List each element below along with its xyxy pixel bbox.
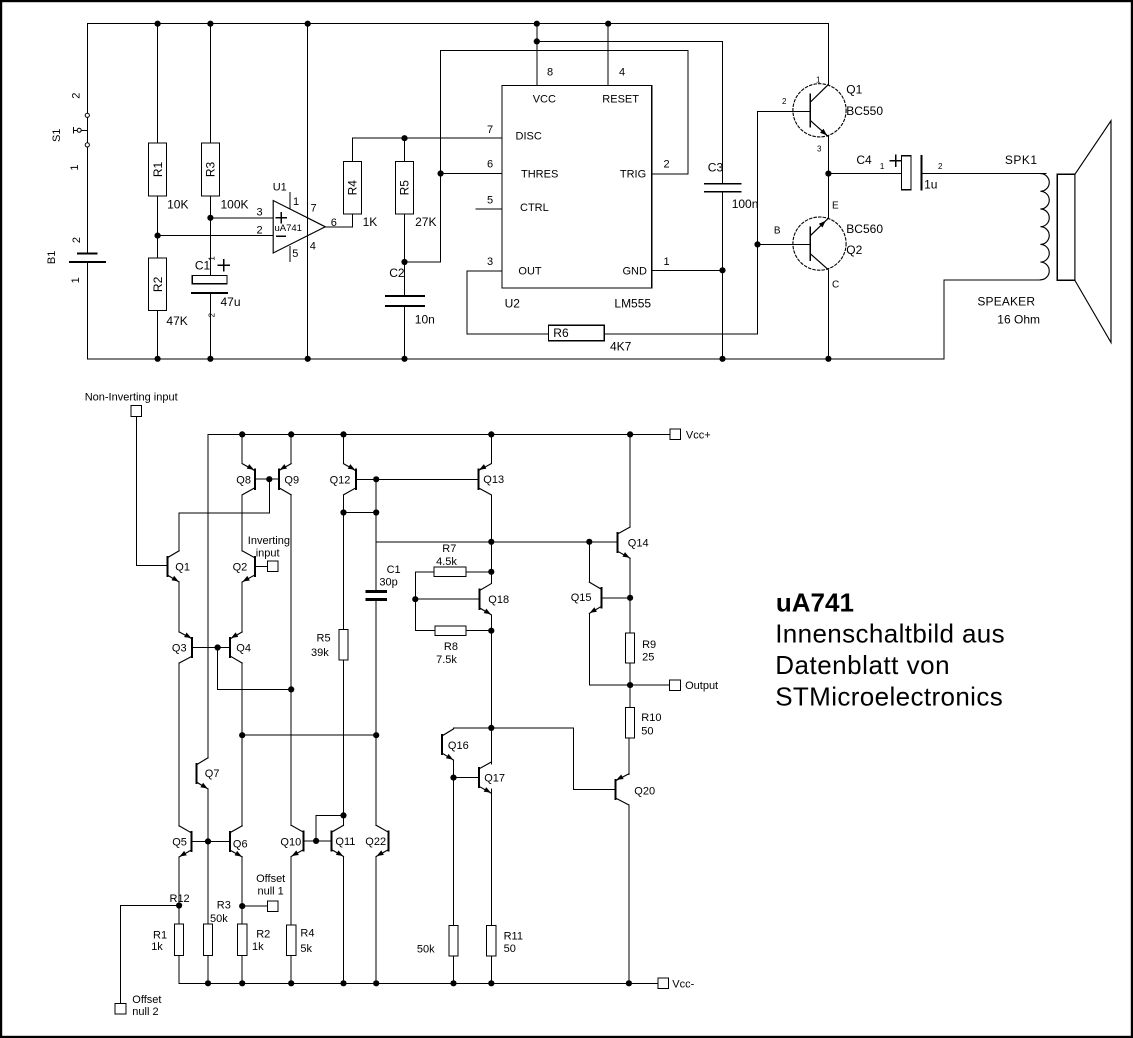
svg-text:E: E — [832, 201, 839, 212]
svg-text:Non-Inverting input: Non-Inverting input — [85, 392, 178, 404]
svg-text:Q12: Q12 — [330, 474, 351, 486]
svg-text:B1: B1 — [46, 251, 58, 264]
svg-text:Q2: Q2 — [846, 243, 862, 257]
svg-text:25: 25 — [642, 652, 654, 664]
svg-text:47u: 47u — [221, 295, 241, 309]
svg-text:Q4: Q4 — [236, 643, 251, 655]
svg-text:50: 50 — [641, 725, 653, 737]
svg-text:null 2: null 2 — [132, 1006, 158, 1018]
svg-text:R4: R4 — [346, 180, 360, 196]
svg-text:C2: C2 — [389, 266, 405, 280]
svg-text:R8: R8 — [444, 641, 458, 653]
svg-text:Q1: Q1 — [846, 82, 862, 96]
svg-text:30p: 30p — [379, 577, 397, 589]
svg-text:Q3: Q3 — [172, 643, 187, 655]
svg-text:Q2: Q2 — [233, 562, 248, 574]
svg-text:1k: 1k — [151, 941, 163, 953]
svg-text:2: 2 — [71, 237, 83, 243]
svg-text:10n: 10n — [415, 313, 435, 327]
svg-text:input: input — [256, 547, 280, 559]
svg-text:2: 2 — [71, 93, 83, 99]
svg-text:2: 2 — [208, 312, 217, 317]
svg-text:27K: 27K — [415, 215, 436, 229]
svg-text:THRES: THRES — [521, 169, 558, 181]
svg-text:C: C — [832, 280, 839, 291]
svg-text:R1: R1 — [153, 929, 167, 941]
svg-text:R11: R11 — [504, 931, 523, 943]
svg-text:BC550: BC550 — [846, 104, 883, 118]
svg-text:Q14: Q14 — [628, 538, 649, 550]
svg-text:7: 7 — [487, 124, 493, 136]
svg-text:CTRL: CTRL — [520, 202, 549, 214]
svg-text:2: 2 — [782, 97, 787, 106]
svg-text:1k: 1k — [252, 941, 264, 953]
svg-text:100n: 100n — [732, 197, 759, 211]
svg-text:RESET: RESET — [602, 94, 639, 106]
svg-text:47K: 47K — [166, 314, 187, 328]
svg-text:Q5: Q5 — [172, 836, 187, 848]
svg-text:Vcc+: Vcc+ — [686, 430, 711, 442]
svg-text:C1: C1 — [387, 564, 401, 576]
svg-text:SPK1: SPK1 — [1005, 153, 1038, 167]
svg-text:1: 1 — [208, 256, 217, 261]
svg-text:1: 1 — [293, 196, 299, 208]
svg-text:7: 7 — [311, 203, 317, 215]
svg-text:100K: 100K — [221, 198, 249, 212]
svg-text:R6: R6 — [553, 326, 569, 340]
svg-text:Q7: Q7 — [205, 768, 220, 780]
svg-text:TRIG: TRIG — [620, 169, 646, 181]
svg-text:R1: R1 — [151, 162, 165, 178]
svg-text:R9: R9 — [642, 639, 656, 651]
svg-text:Inverting: Inverting — [248, 535, 290, 547]
svg-text:VCC: VCC — [533, 94, 556, 106]
svg-text:16 Ohm: 16 Ohm — [997, 313, 1040, 327]
svg-text:DISC: DISC — [516, 131, 542, 143]
svg-text:1: 1 — [70, 277, 82, 283]
svg-text:5: 5 — [292, 248, 298, 260]
svg-text:8: 8 — [547, 67, 553, 79]
svg-text:R7: R7 — [442, 543, 456, 555]
svg-text:Q22: Q22 — [365, 836, 386, 848]
svg-text:Offset: Offset — [132, 994, 161, 1006]
svg-text:R12: R12 — [170, 893, 190, 905]
svg-text:SPEAKER: SPEAKER — [977, 295, 1035, 309]
svg-text:50: 50 — [504, 943, 516, 955]
svg-text:LM555: LM555 — [614, 297, 651, 311]
svg-text:STMicroelectronics: STMicroelectronics — [775, 682, 1003, 712]
svg-text:Q18: Q18 — [488, 594, 509, 606]
svg-text:2: 2 — [257, 225, 263, 237]
svg-text:S1: S1 — [51, 129, 63, 142]
svg-text:Q8: Q8 — [236, 474, 251, 486]
svg-text:R5: R5 — [317, 632, 331, 644]
svg-text:4: 4 — [619, 67, 625, 79]
svg-text:Q11: Q11 — [335, 836, 355, 848]
svg-text:null 1: null 1 — [258, 885, 284, 897]
svg-text:5k: 5k — [300, 943, 312, 955]
svg-text:Q13: Q13 — [483, 474, 504, 486]
svg-text:50k: 50k — [417, 944, 435, 956]
svg-text:R10: R10 — [641, 712, 661, 724]
svg-text:B: B — [774, 226, 781, 237]
svg-text:1: 1 — [664, 256, 670, 268]
svg-text:uA741: uA741 — [776, 588, 854, 618]
svg-text:U2: U2 — [505, 297, 521, 311]
svg-text:C3: C3 — [708, 161, 724, 175]
svg-text:4.5k: 4.5k — [436, 556, 457, 568]
svg-text:Q10: Q10 — [280, 836, 301, 848]
svg-text:R5: R5 — [398, 180, 412, 196]
svg-text:Offset: Offset — [256, 873, 285, 885]
svg-text:Vcc-: Vcc- — [672, 978, 694, 990]
svg-text:4K7: 4K7 — [610, 340, 632, 354]
svg-text:39k: 39k — [311, 647, 329, 659]
svg-text:50k: 50k — [210, 913, 228, 925]
svg-text:uA741: uA741 — [275, 223, 302, 234]
svg-text:2: 2 — [664, 159, 670, 171]
svg-text:1: 1 — [816, 75, 821, 84]
svg-text:GND: GND — [623, 266, 648, 278]
svg-text:R2: R2 — [151, 276, 165, 292]
svg-text:7.5k: 7.5k — [436, 654, 457, 666]
svg-text:2: 2 — [938, 162, 943, 171]
svg-text:R3: R3 — [217, 900, 231, 912]
svg-text:Q15: Q15 — [571, 592, 592, 604]
svg-text:Datenblatt von: Datenblatt von — [775, 650, 950, 680]
svg-text:3: 3 — [487, 256, 493, 268]
svg-text:Q17: Q17 — [484, 773, 505, 785]
svg-text:5: 5 — [487, 195, 493, 207]
svg-text:BC560: BC560 — [846, 222, 883, 236]
svg-text:R3: R3 — [204, 162, 218, 178]
svg-text:OUT: OUT — [518, 266, 542, 278]
svg-text:1u: 1u — [924, 178, 937, 192]
svg-text:Q9: Q9 — [284, 474, 299, 486]
svg-text:R2: R2 — [256, 929, 270, 941]
svg-text:1K: 1K — [363, 215, 378, 229]
svg-text:Q1: Q1 — [175, 562, 190, 574]
svg-text:1: 1 — [880, 162, 885, 171]
svg-text:10K: 10K — [167, 198, 188, 212]
svg-text:4: 4 — [310, 241, 316, 253]
svg-text:6: 6 — [487, 159, 493, 171]
svg-text:U1: U1 — [273, 182, 287, 194]
svg-text:Q16: Q16 — [448, 740, 469, 752]
svg-text:Q6: Q6 — [233, 839, 248, 851]
svg-text:Q20: Q20 — [634, 786, 655, 798]
svg-text:3: 3 — [257, 206, 263, 218]
svg-text:C4: C4 — [856, 153, 872, 167]
svg-text:R4: R4 — [300, 927, 314, 939]
svg-text:3: 3 — [817, 145, 822, 154]
svg-text:Innenschaltbild aus: Innenschaltbild aus — [775, 619, 1005, 649]
svg-text:1: 1 — [69, 165, 81, 171]
svg-text:Output: Output — [685, 680, 718, 692]
